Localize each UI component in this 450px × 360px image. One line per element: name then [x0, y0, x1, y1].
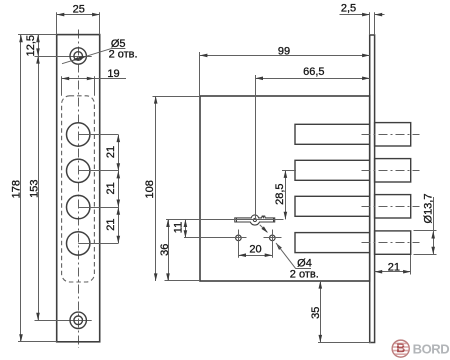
- svg-text:153: 153: [28, 180, 40, 198]
- svg-text:25: 25: [73, 3, 85, 15]
- svg-text:21: 21: [388, 262, 400, 274]
- svg-text:21: 21: [105, 218, 117, 230]
- svg-text:21: 21: [105, 146, 117, 158]
- svg-text:35: 35: [310, 307, 322, 319]
- svg-text:12,5: 12,5: [25, 35, 37, 56]
- svg-text:28,5: 28,5: [274, 183, 286, 204]
- svg-text:11: 11: [172, 222, 184, 233]
- svg-text:21: 21: [105, 182, 117, 194]
- svg-text:36: 36: [159, 244, 171, 256]
- svg-text:178: 178: [10, 180, 22, 198]
- svg-text:108: 108: [144, 180, 156, 198]
- svg-text:2 отв.: 2 отв.: [290, 268, 319, 280]
- svg-text:2,5: 2,5: [341, 2, 356, 14]
- svg-text:Ø13,7: Ø13,7: [422, 194, 434, 224]
- svg-text:66,5: 66,5: [303, 66, 324, 78]
- svg-text:2 отв.: 2 отв.: [109, 48, 138, 60]
- svg-text:20: 20: [249, 243, 261, 255]
- svg-text:BORDER: BORDER: [413, 342, 450, 357]
- svg-text:99: 99: [278, 45, 290, 57]
- svg-text:19: 19: [107, 68, 119, 80]
